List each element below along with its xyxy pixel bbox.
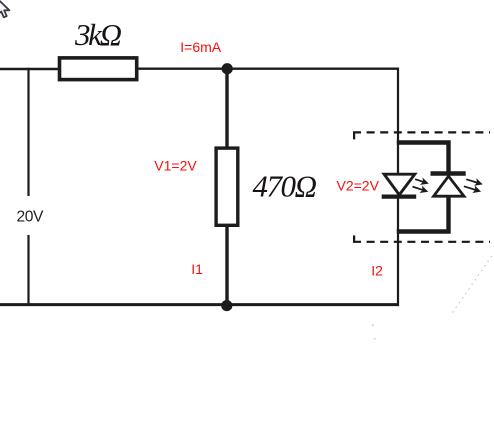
svg-text:I1: I1 [191,261,203,277]
LED D2 emission arrows [463,176,484,196]
LED D1 emission arrows [411,175,430,195]
node top junction dot [222,63,233,74]
svg-text:470Ω: 470Ω [253,169,318,204]
wire thick branch bottom from LED D2 [397,197,449,232]
LED D1 triangle (cathode down) [384,174,415,195]
svg-text:3kΩ: 3kΩ [74,17,122,52]
wire middle vertical from R2 to bottom node [225,225,228,305]
wire left vertical lower (source lead) [27,235,29,305]
LED D1 cathode bar [382,195,417,199]
wire thick branch top to LED D2 [397,143,449,173]
resistor R1 body (3k ohm, horizontal) [60,58,137,80]
wire bottom return rail [0,303,399,306]
wire top from R1 to right branch corner [138,67,399,69]
svg-text:V1=2V: V1=2V [154,157,197,173]
cursor (mouse pointer, clipped at top-left) [0,0,9,17]
dashed enclosure around LED module [353,132,490,241]
wire right vertical branch [397,68,399,307]
wire top-left horizontal from 20V source to R1 [0,68,59,70]
svg-text:20V: 20V [17,208,45,225]
svg-text:V2=2V: V2=2V [337,177,380,193]
LED D2 cathode bar [431,171,466,175]
LED D2 triangle (cathode up) [434,176,464,196]
node bottom junction dot [221,300,232,311]
svg-text:I=6mA: I=6mA [180,39,222,55]
resistor R2 body (470 ohm, vertical) [216,148,238,225]
wire middle vertical from top node to R2 [225,69,228,148]
wire left vertical upper (source lead) [27,68,29,196]
artifact faint diagonal marks bottom-right [372,254,494,340]
svg-text:I2: I2 [371,262,383,278]
